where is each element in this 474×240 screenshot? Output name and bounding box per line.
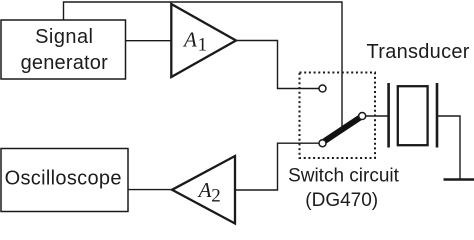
transducer crystal right plate [436,83,439,148]
svg-text:1: 1 [198,34,208,55]
wire oscilloscope to A2 [128,189,173,191]
transducer crystal left plate [387,83,390,148]
op-amp A1 [171,4,236,77]
box oscilloscope [1,149,128,212]
switch contact throw 2 [319,140,326,147]
svg-text:Signal: Signal [35,26,93,48]
svg-text:Transducer: Transducer [367,41,470,63]
svg-text:Oscilloscope: Oscilloscope [5,168,122,190]
wire A2 to switch throw 2 [235,143,319,190]
ground [444,178,474,181]
svg-text:generator: generator [21,52,109,74]
switch circuit dashed box [300,73,376,159]
transducer crystal body [398,86,428,145]
wire top: signal generator to switch pole [64,2,343,128]
switch contact throw 1 [319,85,326,92]
box signal generator [1,20,126,79]
wire transducer to ground [437,116,460,179]
svg-text:2: 2 [211,185,221,206]
wire signal generator to A1 [126,40,172,42]
svg-text:Switch circuit: Switch circuit [288,166,400,187]
svg-text:(DG470): (DG470) [305,190,378,211]
wire A1 to switch throw 1 [236,41,319,89]
svg-text:A: A [182,27,197,51]
switch bar (pole) [323,117,362,143]
wire switch common to transducer [366,115,389,117]
switch contact common [359,113,366,120]
op-amp A2 [172,156,235,224]
svg-text:A: A [197,178,212,202]
